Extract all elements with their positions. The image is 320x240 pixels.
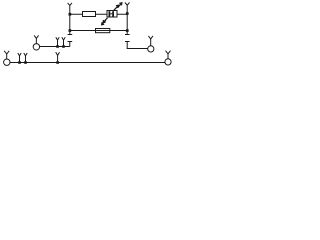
wire left vertical upper (69, 31, 71, 35)
test socket bottom-right (165, 51, 171, 65)
terminal clamp top-left (68, 3, 72, 15)
resistor (83, 12, 96, 17)
wire right vertical between branches (126, 14, 128, 30)
test socket right-middle (148, 36, 154, 52)
wire top branch (70, 13, 127, 15)
clamp contact rail-1 b (62, 37, 65, 46)
junction dot rail-1 a (56, 45, 59, 48)
clamp contact rail-2 b (24, 53, 27, 63)
disconnect point right (125, 35, 130, 42)
junction dot rail-2 b (24, 61, 27, 64)
junction dot top-right (126, 12, 129, 15)
clamp contact rail-2 c (56, 52, 60, 62)
wire right vertical upper (126, 31, 128, 35)
junction dot rail-2 c (56, 61, 59, 64)
wire right to test socket (127, 48, 148, 50)
terminal clamp top-right (125, 3, 130, 15)
test socket bottom-left (4, 51, 10, 66)
junction dot fuse-right (126, 29, 129, 32)
junction dot fuse-left (69, 29, 72, 32)
wire bottom rail (10, 62, 165, 64)
LED light arrows bottom-left (102, 18, 108, 25)
LED light arrows top-right (114, 3, 122, 10)
wire fuse branch (70, 30, 127, 32)
wire left vertical between branches (69, 14, 71, 30)
fuse (96, 29, 110, 33)
LED indicator (two anti-parallel LEDs) (107, 11, 117, 18)
clamp contact rail-1 a (56, 37, 59, 46)
junction dot rail-2 a (18, 61, 21, 64)
disconnect point left (68, 35, 73, 42)
junction dot rail-1 b (62, 45, 65, 48)
wire left vertical lower (69, 42, 71, 47)
wire right vertical lower to corner (126, 42, 128, 49)
wire left middle rail (40, 46, 70, 48)
junction dot top-left (69, 13, 72, 16)
test socket left-middle (33, 35, 39, 50)
clamp contact rail-2 a (18, 53, 21, 63)
